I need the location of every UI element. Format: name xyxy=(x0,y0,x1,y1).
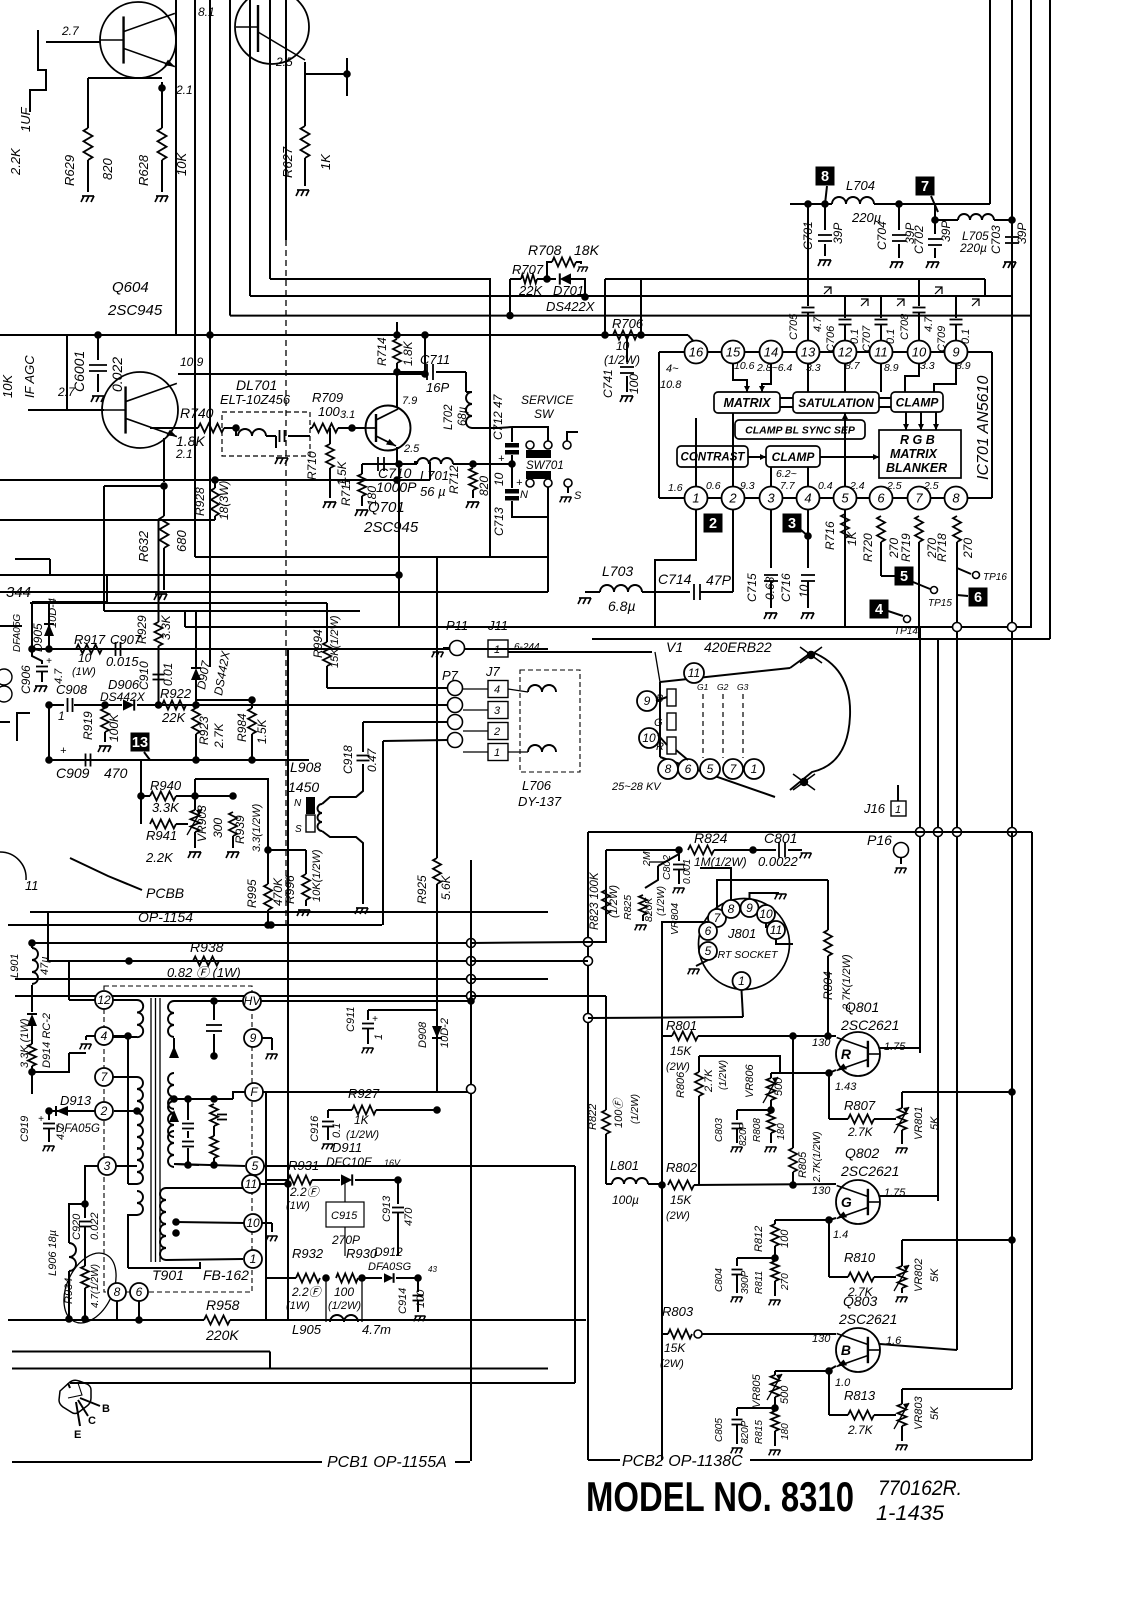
svg-text:Q604: Q604 xyxy=(112,279,149,296)
svg-text:770162R.: 770162R. xyxy=(878,1477,962,1500)
svg-text:R808: R808 xyxy=(752,1118,763,1142)
svg-text:C803: C803 xyxy=(714,1118,725,1142)
svg-text:R628: R628 xyxy=(136,154,151,186)
svg-text:R825: R825 xyxy=(622,895,634,920)
svg-text:8.1: 8.1 xyxy=(198,5,215,19)
svg-text:820: 820 xyxy=(477,476,491,496)
svg-text:L706: L706 xyxy=(522,778,552,793)
svg-text:S: S xyxy=(574,490,582,502)
svg-text:L905: L905 xyxy=(292,1322,322,1337)
svg-text:L703: L703 xyxy=(602,563,633,579)
svg-text:10K(1/2W): 10K(1/2W) xyxy=(311,849,323,902)
svg-text:2: 2 xyxy=(728,491,737,506)
svg-text:C909: C909 xyxy=(56,765,90,781)
svg-text:0.6: 0.6 xyxy=(706,480,721,492)
svg-text:2SC2621: 2SC2621 xyxy=(838,1311,897,1327)
svg-text:DY-137: DY-137 xyxy=(518,794,562,809)
svg-text:6: 6 xyxy=(974,590,982,606)
svg-text:2.8~6.4: 2.8~6.4 xyxy=(756,362,792,374)
svg-text:6: 6 xyxy=(705,924,712,938)
svg-text:2.7K: 2.7K xyxy=(212,722,226,749)
svg-text:1K: 1K xyxy=(354,1113,370,1127)
svg-text:1: 1 xyxy=(373,1034,385,1040)
svg-text:(2W): (2W) xyxy=(666,1210,690,1222)
svg-text:3: 3 xyxy=(788,516,796,532)
svg-text:0.47: 0.47 xyxy=(365,747,379,772)
svg-text:0.4: 0.4 xyxy=(818,480,833,492)
svg-text:SW701: SW701 xyxy=(526,460,564,472)
svg-text:R996: R996 xyxy=(283,875,297,904)
svg-text:47µ: 47µ xyxy=(39,956,51,975)
svg-text:R931: R931 xyxy=(288,1158,319,1173)
svg-text:VR803: VR803 xyxy=(913,1395,925,1430)
svg-text:8.9: 8.9 xyxy=(884,362,899,374)
svg-text:D912: D912 xyxy=(374,1245,403,1259)
svg-text:100: 100 xyxy=(334,1285,354,1299)
svg-text:B: B xyxy=(102,1403,110,1415)
svg-text:220µ: 220µ xyxy=(959,241,987,255)
svg-text:R720: R720 xyxy=(861,533,875,562)
svg-text:DFA0SG: DFA0SG xyxy=(368,1261,412,1273)
svg-text:7: 7 xyxy=(915,491,923,506)
svg-text:T901: T901 xyxy=(152,1267,184,1283)
svg-text:(2W): (2W) xyxy=(660,1358,684,1370)
svg-text:R919: R919 xyxy=(81,711,95,740)
svg-text:R632: R632 xyxy=(136,530,151,562)
svg-text:1.43: 1.43 xyxy=(835,1081,857,1093)
svg-text:10: 10 xyxy=(78,651,92,665)
svg-text:2.7K: 2.7K xyxy=(847,1125,874,1139)
svg-text:11: 11 xyxy=(770,923,782,937)
svg-text:420ERB22: 420ERB22 xyxy=(704,639,772,655)
svg-text:820P: 820P xyxy=(740,1420,751,1444)
svg-text:R740: R740 xyxy=(180,405,214,421)
svg-text:FB-162: FB-162 xyxy=(203,1267,249,1283)
svg-text:R803: R803 xyxy=(662,1304,694,1319)
svg-text:15K: 15K xyxy=(664,1341,686,1355)
svg-text:C919: C919 xyxy=(19,1116,31,1142)
svg-text:39P: 39P xyxy=(939,221,953,242)
svg-text:2.2Ⓕ: 2.2Ⓕ xyxy=(289,1185,321,1199)
svg-text:E: E xyxy=(74,1429,81,1441)
svg-text:(1/2W): (1/2W) xyxy=(608,885,620,918)
svg-text:1.8K: 1.8K xyxy=(176,433,205,449)
svg-text:8: 8 xyxy=(114,1285,121,1299)
svg-text:R995: R995 xyxy=(245,879,259,908)
svg-text:R719: R719 xyxy=(899,533,913,562)
svg-text:R718: R718 xyxy=(935,533,949,562)
svg-text:1: 1 xyxy=(895,804,901,816)
svg-text:P16: P16 xyxy=(867,832,892,848)
svg-text:130: 130 xyxy=(812,1185,831,1197)
svg-text:5: 5 xyxy=(707,762,714,776)
svg-text:3: 3 xyxy=(494,705,501,717)
svg-text:N: N xyxy=(520,489,528,501)
svg-text:8: 8 xyxy=(728,902,735,916)
svg-text:L906 18µ: L906 18µ xyxy=(47,1230,59,1276)
svg-text:P11: P11 xyxy=(446,618,468,633)
svg-text:4~: 4~ xyxy=(666,363,679,375)
svg-text:VR801: VR801 xyxy=(913,1106,925,1140)
svg-text:R805: R805 xyxy=(797,1151,809,1178)
svg-text:18(3W): 18(3W) xyxy=(217,481,231,520)
svg-text:D908: D908 xyxy=(417,1021,429,1048)
svg-text:0.01: 0.01 xyxy=(161,663,175,686)
svg-text:IF AGC: IF AGC xyxy=(22,355,37,398)
svg-text:J801: J801 xyxy=(727,926,756,941)
svg-text:220K: 220K xyxy=(205,1327,239,1343)
svg-text:1: 1 xyxy=(494,644,500,656)
svg-text:2SC2621: 2SC2621 xyxy=(840,1017,899,1033)
svg-text:CLAMP BL SYNC SEP: CLAMP BL SYNC SEP xyxy=(745,424,856,436)
svg-text:15K(1/2W): 15K(1/2W) xyxy=(329,615,341,668)
svg-text:9: 9 xyxy=(644,694,651,708)
svg-text:2.5: 2.5 xyxy=(886,480,902,492)
svg-text:2.5: 2.5 xyxy=(923,480,939,492)
svg-text:1: 1 xyxy=(692,491,699,506)
svg-text:8: 8 xyxy=(952,491,960,506)
svg-text:470: 470 xyxy=(104,765,128,781)
svg-text:1.8K: 1.8K xyxy=(401,340,415,366)
svg-text:5K: 5K xyxy=(929,1116,941,1130)
svg-text:PCB1 OP-1155A: PCB1 OP-1155A xyxy=(327,1454,447,1471)
svg-text:2M: 2M xyxy=(641,851,653,867)
svg-text:1.75: 1.75 xyxy=(884,1187,906,1199)
svg-text:C708: C708 xyxy=(899,313,911,340)
svg-text:0.022: 0.022 xyxy=(109,357,125,392)
svg-text:R958: R958 xyxy=(206,1297,240,1313)
svg-text:Q802: Q802 xyxy=(845,1145,879,1161)
svg-text:MATRIX: MATRIX xyxy=(724,396,772,410)
svg-text:L801: L801 xyxy=(610,1158,639,1173)
svg-text:C910: C910 xyxy=(137,661,151,690)
svg-text:R934: R934 xyxy=(63,1278,75,1304)
svg-text:9: 9 xyxy=(250,1031,257,1045)
svg-text:R824: R824 xyxy=(694,830,728,846)
svg-text:1.4: 1.4 xyxy=(833,1229,848,1241)
svg-text:270: 270 xyxy=(780,1273,791,1291)
svg-text:2: 2 xyxy=(493,726,500,738)
svg-text:1UF: 1UF xyxy=(18,106,33,132)
svg-text:2.7: 2.7 xyxy=(57,385,76,399)
svg-text:13: 13 xyxy=(132,735,148,751)
svg-text:+: + xyxy=(46,656,52,667)
svg-text:(1W): (1W) xyxy=(286,1300,310,1312)
svg-text:2.4: 2.4 xyxy=(849,480,865,492)
svg-text:12: 12 xyxy=(838,345,853,360)
svg-text:6: 6 xyxy=(136,1285,143,1299)
svg-text:J7: J7 xyxy=(485,664,501,679)
svg-text:3.1: 3.1 xyxy=(340,409,355,421)
svg-text:R925: R925 xyxy=(415,875,429,904)
svg-text:(1/2W): (1/2W) xyxy=(718,1060,729,1090)
svg-text:9: 9 xyxy=(746,901,753,915)
svg-text:2.2K: 2.2K xyxy=(8,147,23,176)
svg-text:8: 8 xyxy=(821,169,829,185)
svg-text:5: 5 xyxy=(841,491,849,506)
svg-text:D914 RC-2: D914 RC-2 xyxy=(41,1013,53,1068)
svg-text:C702: C702 xyxy=(912,225,926,254)
svg-text:C906: C906 xyxy=(19,665,33,694)
svg-text:100K: 100K xyxy=(107,713,121,742)
svg-text:6: 6 xyxy=(685,762,692,776)
svg-text:43: 43 xyxy=(428,1265,437,1274)
svg-text:0.001: 0.001 xyxy=(682,859,693,884)
svg-text:R629: R629 xyxy=(62,155,77,186)
svg-text:+: + xyxy=(60,745,67,757)
svg-text:C715: C715 xyxy=(745,573,759,602)
svg-text:VR805: VR805 xyxy=(751,1373,763,1408)
svg-text:2.7K: 2.7K xyxy=(847,1423,874,1437)
svg-text:+: + xyxy=(516,477,523,489)
svg-text:180: 180 xyxy=(780,1423,791,1440)
svg-text:TP15: TP15 xyxy=(928,598,952,609)
svg-text:13: 13 xyxy=(801,345,816,360)
svg-text:C804: C804 xyxy=(714,1268,725,1292)
svg-text:8.7: 8.7 xyxy=(845,360,861,372)
svg-text:11: 11 xyxy=(688,666,700,680)
svg-text:6.2~: 6.2~ xyxy=(776,468,797,480)
svg-text:5: 5 xyxy=(252,1159,259,1173)
svg-text:R813: R813 xyxy=(844,1388,876,1403)
svg-text:10: 10 xyxy=(912,345,927,360)
svg-text:4.7m: 4.7m xyxy=(362,1322,391,1337)
svg-text:ELT-10Z456: ELT-10Z456 xyxy=(220,392,291,407)
svg-text:180: 180 xyxy=(776,1123,787,1140)
svg-text:2SC2621: 2SC2621 xyxy=(840,1163,899,1179)
svg-text:1M(1/2W): 1M(1/2W) xyxy=(694,855,747,869)
svg-text:R941: R941 xyxy=(146,828,177,843)
svg-text:C911: C911 xyxy=(345,1007,357,1032)
svg-text:15: 15 xyxy=(726,345,741,360)
svg-text:300: 300 xyxy=(211,818,225,838)
svg-text:11: 11 xyxy=(874,345,888,360)
svg-text:C741: C741 xyxy=(601,369,615,398)
svg-text:1K: 1K xyxy=(318,153,333,170)
svg-text:15K: 15K xyxy=(670,1193,692,1207)
svg-text:C908: C908 xyxy=(56,682,88,697)
svg-text:R712: R712 xyxy=(447,465,461,494)
svg-text:3: 3 xyxy=(767,491,775,506)
svg-text:D911: D911 xyxy=(332,1140,362,1155)
svg-text:470: 470 xyxy=(403,1207,415,1226)
svg-text:(2W): (2W) xyxy=(666,1061,690,1073)
svg-text:CONTRAST: CONTRAST xyxy=(681,452,746,464)
svg-text:SATULATION: SATULATION xyxy=(798,396,874,410)
svg-text:10D-4: 10D-4 xyxy=(47,598,59,628)
svg-text:270: 270 xyxy=(961,538,975,559)
svg-text:C713: C713 xyxy=(492,507,506,536)
svg-text:HV: HV xyxy=(244,994,262,1008)
svg-text:MODEL NO. 8310: MODEL NO. 8310 xyxy=(586,1473,854,1520)
svg-text:J11: J11 xyxy=(487,618,508,633)
svg-text:L702: L702 xyxy=(443,404,455,430)
svg-text:MATRIX: MATRIX xyxy=(890,447,938,461)
svg-text:VR804: VR804 xyxy=(669,903,681,935)
svg-text:10: 10 xyxy=(759,907,773,921)
svg-text:9.3: 9.3 xyxy=(740,480,755,492)
svg-text:2.7K(1/2W): 2.7K(1/2W) xyxy=(812,1131,823,1183)
svg-text:R815: R815 xyxy=(754,1420,765,1444)
svg-text:2.5: 2.5 xyxy=(275,55,293,69)
svg-text:C913: C913 xyxy=(381,1195,393,1222)
svg-text:V1: V1 xyxy=(666,639,683,655)
svg-text:4: 4 xyxy=(494,684,500,696)
svg-text:100: 100 xyxy=(627,374,641,394)
svg-text:TP16: TP16 xyxy=(983,572,1007,583)
svg-text:DL701: DL701 xyxy=(236,377,277,393)
svg-text:F: F xyxy=(250,1085,258,1099)
svg-text:S: S xyxy=(295,824,302,835)
svg-text:VR806: VR806 xyxy=(744,1063,756,1098)
svg-text:6.8µ: 6.8µ xyxy=(608,598,636,614)
svg-text:16P: 16P xyxy=(426,380,449,395)
svg-text:R708: R708 xyxy=(528,242,562,258)
svg-text:R922: R922 xyxy=(160,686,192,701)
svg-text:9: 9 xyxy=(952,345,959,360)
svg-text:3.3(1/2W): 3.3(1/2W) xyxy=(251,803,263,852)
svg-text:5K: 5K xyxy=(929,1406,941,1420)
svg-text:R927: R927 xyxy=(348,1086,380,1101)
svg-text:2: 2 xyxy=(100,1104,108,1118)
svg-text:C711: C711 xyxy=(420,352,450,367)
svg-text:(1/2W): (1/2W) xyxy=(630,1094,641,1124)
svg-text:10: 10 xyxy=(642,731,656,745)
svg-text:820P: 820P xyxy=(738,1122,749,1146)
svg-text:R932: R932 xyxy=(292,1246,324,1261)
svg-text:39P: 39P xyxy=(831,223,845,244)
svg-text:R938: R938 xyxy=(190,939,224,955)
svg-text:2SC945: 2SC945 xyxy=(107,302,163,319)
svg-text:7.9: 7.9 xyxy=(402,395,417,407)
svg-text:4.7: 4.7 xyxy=(923,316,935,332)
svg-text:56 µ: 56 µ xyxy=(420,484,446,499)
svg-text:1.6: 1.6 xyxy=(668,482,683,494)
svg-text:C714: C714 xyxy=(658,571,692,587)
svg-text:R G B: R G B xyxy=(900,433,935,447)
svg-text:100: 100 xyxy=(779,1229,791,1248)
svg-text:22K: 22K xyxy=(161,710,186,725)
svg-text:G: G xyxy=(654,717,663,729)
svg-text:(1W): (1W) xyxy=(72,666,96,678)
svg-text:DS422X: DS422X xyxy=(546,299,596,314)
svg-text:C: C xyxy=(88,1415,96,1427)
svg-text:D701: D701 xyxy=(553,283,584,298)
svg-text:+: + xyxy=(498,453,505,465)
svg-text:2.1: 2.1 xyxy=(175,83,193,97)
svg-text:2SC945: 2SC945 xyxy=(363,519,419,536)
svg-text:CRT SOCKET: CRT SOCKET xyxy=(710,949,779,961)
svg-text:R: R xyxy=(841,1046,852,1062)
svg-text:C914: C914 xyxy=(397,1288,409,1314)
svg-text:J16: J16 xyxy=(863,801,886,816)
svg-text:3: 3 xyxy=(104,1159,111,1173)
svg-text:(1/2W): (1/2W) xyxy=(604,353,640,367)
svg-text:10.9: 10.9 xyxy=(180,355,204,369)
svg-text:DFA05G: DFA05G xyxy=(12,614,23,652)
svg-text:4: 4 xyxy=(101,1029,108,1043)
svg-text:10.6: 10.6 xyxy=(734,360,755,372)
svg-text:C805: C805 xyxy=(714,1418,725,1442)
svg-text:22K: 22K xyxy=(518,283,543,298)
svg-text:16V: 16V xyxy=(384,1158,401,1168)
svg-text:C801: C801 xyxy=(764,830,797,846)
svg-text:Q803: Q803 xyxy=(843,1293,877,1309)
svg-text:100µ: 100µ xyxy=(612,1193,639,1207)
svg-text:R929: R929 xyxy=(135,615,149,644)
svg-text:2.7: 2.7 xyxy=(61,24,80,38)
svg-text:R716: R716 xyxy=(823,521,837,550)
svg-text:R812: R812 xyxy=(753,1226,765,1252)
svg-text:SERVICE: SERVICE xyxy=(521,393,574,407)
svg-text:R930: R930 xyxy=(346,1246,378,1261)
svg-text:680: 680 xyxy=(174,530,189,552)
svg-text:(1/2W): (1/2W) xyxy=(328,1300,361,1312)
svg-text:12: 12 xyxy=(97,993,111,1007)
svg-text:L704: L704 xyxy=(846,178,875,193)
svg-text:68µ: 68µ xyxy=(457,406,469,426)
svg-text:VR903: VR903 xyxy=(195,805,209,842)
svg-text:15K: 15K xyxy=(670,1044,692,1058)
svg-text:0.82 Ⓕ (1W): 0.82 Ⓕ (1W) xyxy=(167,965,241,980)
svg-text:0.015: 0.015 xyxy=(106,654,139,669)
svg-text:R928: R928 xyxy=(193,487,207,516)
svg-text:10D-2: 10D-2 xyxy=(439,1018,451,1048)
svg-text:7: 7 xyxy=(921,179,929,195)
svg-text:BLANKER: BLANKER xyxy=(886,461,947,475)
svg-text:390P: 390P xyxy=(740,1270,751,1294)
svg-text:C918: C918 xyxy=(341,745,355,774)
svg-text:10: 10 xyxy=(492,472,506,486)
svg-text:SW: SW xyxy=(534,407,555,421)
svg-text:R709: R709 xyxy=(312,390,343,405)
svg-text:11: 11 xyxy=(245,1177,257,1191)
svg-text:820K: 820K xyxy=(643,896,655,922)
svg-text:R940: R940 xyxy=(150,778,182,793)
svg-text:4.7(1/2W): 4.7(1/2W) xyxy=(90,1264,101,1308)
svg-text:CLAMP: CLAMP xyxy=(772,450,816,464)
svg-text:4: 4 xyxy=(875,602,883,618)
svg-text:Q801: Q801 xyxy=(845,999,879,1015)
svg-text:4: 4 xyxy=(804,491,811,506)
svg-text:14: 14 xyxy=(764,345,778,360)
svg-text:100: 100 xyxy=(415,1289,427,1308)
svg-text:C703: C703 xyxy=(989,225,1003,254)
svg-text:R823 100K: R823 100K xyxy=(589,871,601,930)
svg-text:10K: 10K xyxy=(0,374,15,398)
svg-text:(1/2W): (1/2W) xyxy=(656,886,667,916)
svg-text:5.6K: 5.6K xyxy=(439,874,453,900)
svg-text:L908: L908 xyxy=(290,759,321,775)
svg-text:3.3K: 3.3K xyxy=(152,800,180,815)
svg-text:R710: R710 xyxy=(305,451,319,480)
svg-text:G1: G1 xyxy=(697,682,709,692)
svg-text:R714: R714 xyxy=(375,337,389,366)
svg-text:R802: R802 xyxy=(666,1160,698,1175)
svg-text:2.2Ⓕ: 2.2Ⓕ xyxy=(291,1285,323,1299)
svg-text:0.0022: 0.0022 xyxy=(758,854,799,869)
svg-text:3.3: 3.3 xyxy=(920,360,935,372)
svg-text:R810: R810 xyxy=(844,1250,876,1265)
svg-text:1450: 1450 xyxy=(288,779,319,795)
svg-text:L901: L901 xyxy=(9,954,21,978)
svg-text:8: 8 xyxy=(665,762,672,776)
svg-text:2.2K: 2.2K xyxy=(145,850,174,865)
svg-text:6: 6 xyxy=(877,491,885,506)
svg-text:G3: G3 xyxy=(737,682,749,692)
svg-text:D913: D913 xyxy=(60,1093,92,1108)
svg-text:2.7K: 2.7K xyxy=(703,1069,715,1093)
